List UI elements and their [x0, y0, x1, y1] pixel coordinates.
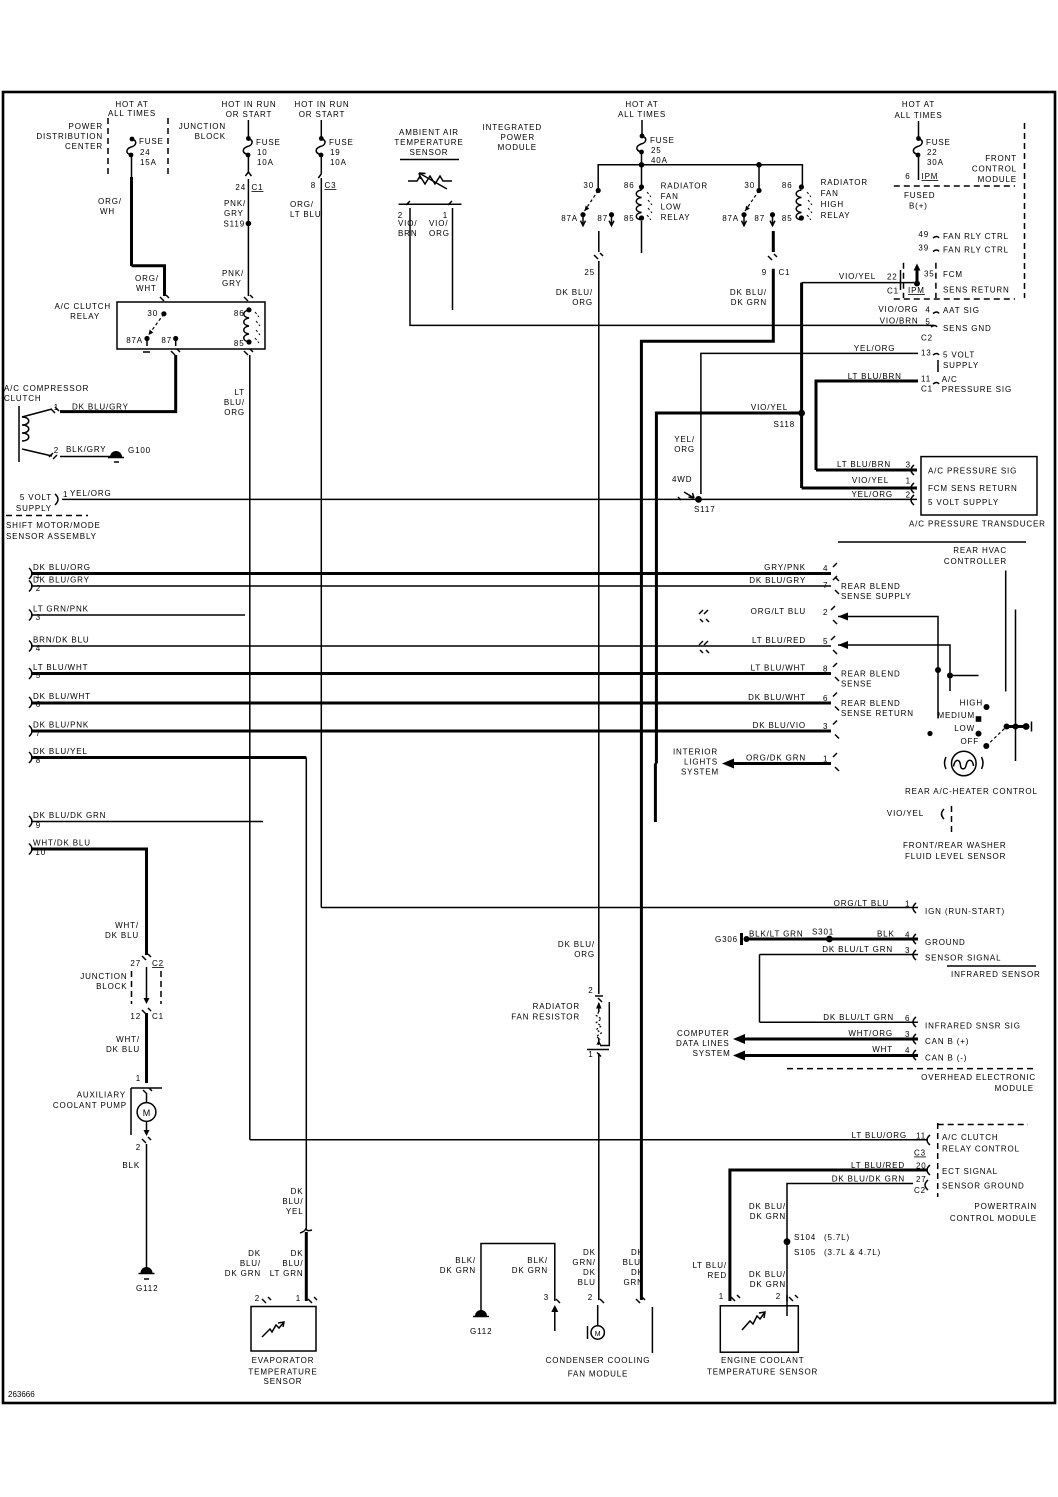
wire VIO/YEL thick stub [654, 764, 657, 823]
svg-text:BLOCK: BLOCK [96, 982, 127, 991]
svg-text:4: 4 [905, 1046, 910, 1055]
svg-text:DK BLU/GRY: DK BLU/GRY [749, 576, 806, 585]
svg-text:DK BLU/: DK BLU/ [749, 1270, 786, 1279]
wire into fuse 25 [641, 120, 643, 135]
wire below fuse 22 [918, 157, 920, 180]
svg-text:WHT/: WHT/ [115, 921, 139, 930]
svg-text:LT BLU/BRN: LT BLU/BRN [837, 460, 891, 469]
svg-text:JUNCTION: JUNCTION [179, 122, 226, 131]
svg-text:DK: DK [631, 1248, 644, 1257]
svg-text:DK BLU: DK BLU [106, 1045, 140, 1054]
svg-text:FUSE: FUSE [256, 138, 281, 147]
overhead electronic module [787, 1068, 1034, 1070]
wire rear hvac internal vertical 1 [1005, 571, 1007, 692]
svg-text:VIO/: VIO/ [398, 219, 417, 228]
fuse F19 10A [319, 136, 324, 141]
svg-text:C3: C3 [325, 181, 337, 190]
svg-text:SENSE: SENSE [841, 680, 872, 689]
svg-text:3: 3 [823, 722, 828, 731]
svg-text:5 VOLT SUPPLY: 5 VOLT SUPPLY [928, 498, 999, 507]
svg-text:DK GRN: DK GRN [750, 1280, 786, 1289]
switch wiper dashed from OFF [986, 727, 1006, 747]
svg-text:86: 86 [234, 309, 245, 318]
svg-text:C1: C1 [779, 268, 791, 277]
svg-text:DK: DK [291, 1187, 304, 1196]
svg-text:9: 9 [762, 268, 767, 277]
fuse F10 10A [246, 136, 251, 141]
svg-text:263666: 263666 [8, 1390, 35, 1399]
wire YEL/ORG from S117 to transducer pin 2 [699, 498, 918, 500]
svg-text:85: 85 [234, 339, 245, 348]
ambient sensor connector line [399, 203, 462, 205]
connector tick above relay 30 [160, 295, 169, 301]
svg-text:WHT: WHT [136, 284, 157, 293]
svg-text:OVERHEAD ELECTRONIC: OVERHEAD ELECTRONIC [921, 1073, 1036, 1082]
svg-text:85: 85 [782, 214, 793, 223]
svg-text:4WD: 4WD [672, 475, 692, 484]
svg-text:C2: C2 [914, 1186, 926, 1195]
svg-text:2: 2 [54, 446, 59, 455]
svg-text:SHIFT MOTOR/MODE: SHIFT MOTOR/MODE [6, 521, 101, 530]
wire LT BLU/RED from PCM 20 to ECT pin 1 [730, 1170, 928, 1301]
svg-text:AUXILIARY: AUXILIARY [77, 1091, 126, 1100]
engine coolant temperature sensor box [720, 1306, 798, 1352]
svg-text:A/C PRESSURE SIG: A/C PRESSURE SIG [928, 467, 1017, 476]
svg-text:1: 1 [588, 1050, 593, 1059]
svg-text:LOW: LOW [661, 203, 682, 212]
svg-text:2: 2 [906, 491, 911, 500]
svg-text:MODULE: MODULE [498, 143, 537, 152]
svg-text:RELAY: RELAY [821, 211, 851, 220]
svg-text:86: 86 [782, 181, 793, 190]
svg-text:DK BLU/DK GRN: DK BLU/DK GRN [832, 1175, 905, 1184]
svg-text:49: 49 [918, 230, 929, 239]
relay wiper 30-87A [149, 314, 164, 335]
svg-text:COOLANT PUMP: COOLANT PUMP [53, 1101, 127, 1110]
svg-text:BRN: BRN [398, 229, 417, 238]
svg-text:2: 2 [776, 1292, 781, 1301]
svg-text:INFRARED SENSOR: INFRARED SENSOR [951, 970, 1041, 979]
svg-text:SUPPLY: SUPPLY [16, 504, 52, 513]
svg-text:HOT AT: HOT AT [625, 100, 658, 109]
svg-text:ORG/: ORG/ [98, 197, 122, 206]
svg-text:LT BLU/ORG: LT BLU/ORG [852, 1131, 907, 1140]
svg-text:INTEGRATED: INTEGRATED [483, 123, 542, 132]
svg-text:ORG/LT BLU: ORG/LT BLU [834, 899, 889, 908]
wire below fuse 10 with connector arrow [247, 157, 249, 172]
svg-text:YEL: YEL [286, 1207, 304, 1216]
svg-text:LT GRN/PNK: LT GRN/PNK [33, 605, 89, 614]
svg-text:FUSED: FUSED [904, 191, 935, 200]
svg-text:FAN MODULE: FAN MODULE [568, 1370, 629, 1379]
svg-text:LT BLU/WHT: LT BLU/WHT [751, 664, 806, 673]
svg-text:DK BLU/ORG: DK BLU/ORG [33, 563, 91, 572]
svg-text:(3.7L & 4.7L): (3.7L & 4.7L) [824, 1248, 881, 1257]
svg-text:BLU/: BLU/ [240, 1259, 261, 1268]
svg-text:BLU/: BLU/ [282, 1259, 303, 1268]
fuse F24 15A [130, 137, 135, 142]
svg-text:FUSE: FUSE [926, 138, 951, 147]
wire into fuse 10 [247, 120, 249, 137]
svg-text:7: 7 [823, 581, 828, 590]
svg-text:5: 5 [823, 637, 828, 646]
svg-text:POWER: POWER [501, 133, 535, 142]
svg-text:6: 6 [823, 694, 828, 703]
wire PNK/GRY [247, 192, 249, 222]
svg-text:A/C COMPRESSOR: A/C COMPRESSOR [4, 384, 89, 393]
svg-text:1: 1 [905, 900, 910, 909]
svg-text:8: 8 [311, 181, 316, 190]
svg-text:DK BLU/: DK BLU/ [730, 288, 767, 297]
wire row6 to pin 6 [31, 702, 831, 705]
svg-text:BLK/: BLK/ [527, 1256, 548, 1265]
svg-text:10A: 10A [257, 158, 274, 167]
wire LT BLU/BRN from FCM 11 down to transducer [816, 381, 918, 470]
svg-text:FAN: FAN [821, 189, 839, 198]
svg-text:POWER: POWER [69, 122, 103, 131]
svg-text:GRN: GRN [623, 1278, 643, 1287]
svg-text:5 VOLT: 5 VOLT [20, 493, 52, 502]
wire 25 DK BLU/ORG below low relay [598, 231, 600, 252]
svg-text:C1: C1 [921, 385, 933, 394]
svg-text:DK: DK [291, 1249, 304, 1258]
wire ORG/WH thick down [130, 177, 133, 266]
wire vertical x950 with junction [947, 673, 953, 679]
svg-text:CLUTCH: CLUTCH [4, 394, 42, 403]
svg-text:DK: DK [583, 1268, 596, 1277]
svg-text:RADIATOR: RADIATOR [661, 182, 708, 191]
svg-text:DATA LINES: DATA LINES [676, 1039, 730, 1048]
wire into fuse 19 [320, 120, 322, 137]
svg-text:22: 22 [927, 148, 938, 157]
wire PNK/GRY to relay 86 [247, 224, 249, 297]
svg-text:FUSE: FUSE [650, 136, 675, 145]
svg-text:S119: S119 [224, 220, 246, 229]
svg-text:24: 24 [235, 183, 246, 192]
svg-text:WHT/DK BLU: WHT/DK BLU [33, 839, 91, 848]
svg-text:B(+): B(+) [909, 202, 928, 211]
motor condenser cooling fan [597, 1305, 599, 1326]
wire 9 C1 below high relay [768, 254, 777, 260]
svg-text:DK BLU/: DK BLU/ [558, 940, 595, 949]
svg-text:CONTROL: CONTROL [972, 165, 1017, 174]
svg-text:25: 25 [651, 146, 662, 155]
svg-text:27: 27 [130, 959, 141, 968]
fuse F25 40A [640, 134, 645, 139]
svg-text:WHT/ORG: WHT/ORG [848, 1029, 893, 1038]
svg-text:CONTROLLER: CONTROLLER [944, 557, 1007, 566]
wire ORG/WHT jog to relay 30 [132, 266, 165, 296]
svg-text:YEL/ORG: YEL/ORG [851, 490, 893, 499]
svg-text:REAR BLEND: REAR BLEND [841, 670, 901, 679]
svg-text:SENSE RETURN: SENSE RETURN [841, 709, 914, 718]
svg-text:WHT: WHT [872, 1045, 893, 1054]
svg-text:FAN RLY CTRL: FAN RLY CTRL [943, 246, 1009, 255]
svg-text:COMPUTER: COMPUTER [677, 1029, 730, 1038]
svg-text:3: 3 [906, 461, 911, 470]
svg-text:12: 12 [130, 1012, 141, 1021]
svg-text:30: 30 [147, 309, 158, 318]
wire fuse 25 to bus [641, 154, 643, 190]
svg-text:RELAY CONTROL: RELAY CONTROL [942, 1145, 1020, 1154]
svg-text:FCM SENS RETURN: FCM SENS RETURN [928, 484, 1018, 493]
relay A/C CLUTCH RELAY box [117, 302, 265, 349]
wire below fuse 19 [320, 157, 322, 174]
svg-text:A/C CLUTCH: A/C CLUTCH [54, 302, 111, 311]
svg-text:S105: S105 [794, 1248, 816, 1257]
svg-text:LT BLU/RED: LT BLU/RED [752, 636, 806, 645]
svg-text:87: 87 [597, 214, 608, 223]
junction block dashed box [131, 971, 133, 1004]
svg-text:DISTRIBUTION: DISTRIBUTION [36, 132, 103, 141]
svg-text:2: 2 [823, 608, 828, 617]
svg-text:RADIATOR: RADIATOR [533, 1002, 580, 1011]
svg-text:DK GRN: DK GRN [731, 298, 767, 307]
svg-text:DK: DK [583, 1248, 596, 1257]
svg-text:MODULE: MODULE [978, 175, 1017, 184]
svg-text:22: 22 [887, 273, 898, 282]
svg-text:LT GRN: LT GRN [270, 1269, 304, 1278]
thermistor symbol [408, 176, 452, 184]
IPM dashed box (pin 35) [903, 263, 905, 298]
svg-text:DK BLU/: DK BLU/ [556, 288, 593, 297]
svg-text:30: 30 [583, 181, 594, 190]
svg-text:FRONT/REAR WASHER: FRONT/REAR WASHER [903, 841, 1007, 850]
svg-text:ENGINE COOLANT: ENGINE COOLANT [721, 1356, 804, 1365]
wire row8 turns down at x306 [31, 756, 306, 759]
svg-text:DK BLU/PNK: DK BLU/PNK [33, 721, 89, 730]
svg-text:YEL/: YEL/ [674, 435, 695, 444]
wire to evaporator pin 1 [305, 1232, 308, 1301]
svg-text:VIO/YEL: VIO/YEL [852, 476, 889, 485]
svg-text:BLOCK: BLOCK [195, 132, 226, 141]
wire YEL/ORG 5V from FCM 13 to S117 [701, 353, 918, 494]
svg-text:BLK/: BLK/ [455, 1256, 476, 1265]
svg-text:3: 3 [544, 1293, 549, 1302]
svg-text:DK GRN: DK GRN [750, 1212, 786, 1221]
svg-text:24: 24 [140, 148, 151, 157]
svg-text:BLU/: BLU/ [224, 398, 245, 407]
svg-text:10: 10 [257, 148, 268, 157]
svg-text:C2: C2 [921, 334, 933, 343]
svg-text:CAN B (+): CAN B (+) [925, 1037, 969, 1046]
svg-text:35: 35 [924, 270, 935, 279]
wire row2 to pin 7 [31, 585, 831, 587]
power distribution center dashed box [107, 118, 109, 176]
wire row9 [31, 821, 263, 823]
svg-text:YEL/ORG: YEL/ORG [70, 489, 112, 498]
svg-text:DK BLU/GRY: DK BLU/GRY [72, 403, 129, 412]
svg-text:DK: DK [248, 1249, 261, 1258]
wire into fuse 22 [918, 121, 920, 137]
svg-text:VIO/BRN: VIO/BRN [880, 317, 919, 326]
svg-text:SENS GND: SENS GND [943, 324, 992, 333]
svg-text:GROUND: GROUND [925, 938, 966, 947]
svg-text:4: 4 [925, 306, 930, 315]
svg-text:FUSE: FUSE [139, 137, 164, 146]
svg-text:ALL TIMES: ALL TIMES [894, 111, 942, 120]
svg-text:VIO/YEL: VIO/YEL [839, 272, 876, 281]
wire DK BLU/ORG long down to radiator fan resistor [598, 261, 600, 994]
A/C compressor clutch coil [18, 406, 20, 462]
svg-text:11: 11 [921, 374, 931, 383]
svg-text:6: 6 [905, 172, 910, 181]
svg-text:OR START: OR START [299, 110, 346, 119]
node junction dot on vertical x938 [935, 667, 941, 673]
svg-text:HOT IN RUN: HOT IN RUN [294, 100, 349, 109]
svg-text:DK BLU/VIO: DK BLU/VIO [753, 721, 806, 730]
svg-text:SENSOR SIGNAL: SENSOR SIGNAL [925, 954, 1001, 963]
svg-text:VIO/ORG: VIO/ORG [878, 305, 918, 314]
svg-text:87: 87 [161, 336, 172, 345]
wire arrow inside junction block [146, 967, 148, 1000]
PCM dashed box [937, 1123, 939, 1197]
wire LT BLU/ORG from relay 85 long down [249, 355, 251, 1140]
svg-text:ORG: ORG [572, 298, 593, 307]
svg-text:VIO/: VIO/ [429, 219, 448, 228]
wire row10 turns down to junction block [31, 849, 147, 955]
svg-text:TEMPERATURE SENSOR: TEMPERATURE SENSOR [707, 1368, 818, 1377]
wire pin2 BLK/GRY to G100 [49, 453, 57, 459]
wire row3 stub [31, 614, 245, 616]
svg-text:JUNCTION: JUNCTION [80, 972, 127, 981]
svg-text:ORG: ORG [429, 229, 450, 238]
svg-text:CONDENSER COOLING: CONDENSER COOLING [546, 1356, 651, 1365]
svg-text:AAT SIG: AAT SIG [943, 306, 980, 315]
wire VIO/YEL from S118 left-down [656, 413, 801, 764]
svg-text:RELAY: RELAY [70, 312, 100, 321]
svg-text:RELAY: RELAY [661, 213, 691, 222]
svg-text:1: 1 [906, 477, 911, 486]
svg-text:DK GRN: DK GRN [225, 1269, 261, 1278]
svg-text:DK BLU/LT GRN: DK BLU/LT GRN [823, 1013, 894, 1022]
svg-text:POWERTRAIN: POWERTRAIN [974, 1202, 1037, 1211]
svg-text:RADIATOR: RADIATOR [821, 178, 868, 187]
svg-text:SENSOR GROUND: SENSOR GROUND [942, 1182, 1025, 1191]
svg-text:WH: WH [100, 207, 115, 216]
A/C pressure transducer box [921, 457, 1037, 515]
svg-text:DK BLU/GRY: DK BLU/GRY [33, 576, 90, 585]
svg-text:87: 87 [754, 214, 765, 223]
svg-text:BLK: BLK [877, 930, 895, 939]
svg-text:FCM: FCM [943, 270, 963, 279]
svg-text:REAR BLEND: REAR BLEND [841, 582, 901, 591]
ground G112 (left) [141, 1267, 153, 1273]
svg-text:BLK: BLK [122, 1161, 140, 1170]
svg-text:25: 25 [584, 268, 595, 277]
svg-text:MEDIUM: MEDIUM [937, 711, 975, 720]
svg-text:2: 2 [255, 1294, 260, 1303]
svg-text:GRN/: GRN/ [572, 1258, 595, 1267]
svg-text:SENSOR: SENSOR [410, 148, 449, 157]
svg-text:RED: RED [708, 1271, 727, 1280]
wire ORG/LT BLU to IGN (RUN-START) pin 1 [321, 907, 918, 909]
svg-text:1: 1 [719, 1292, 724, 1301]
svg-text:OR START: OR START [226, 110, 273, 119]
svg-text:G100: G100 [128, 446, 151, 455]
wire relay87 to A/C compressor clutch (DK BLU/GRY) [60, 355, 176, 412]
svg-text:HOT AT: HOT AT [902, 100, 935, 109]
wire row1 to pin 4 [31, 572, 831, 575]
wire rear hvac internal vertical 2 [1015, 610, 1017, 762]
svg-text:FRONT: FRONT [985, 154, 1017, 163]
svg-text:LT BLU: LT BLU [290, 210, 321, 219]
svg-text:IPM: IPM [922, 172, 939, 181]
svg-text:BLK/GRY: BLK/GRY [66, 445, 107, 454]
svg-text:LT BLU/WHT: LT BLU/WHT [33, 663, 88, 672]
svg-text:LOW: LOW [954, 724, 975, 733]
wire ORG/LT BLU long vertical down to IGN row [320, 191, 322, 908]
svg-text:SENSOR: SENSOR [264, 1377, 303, 1386]
svg-text:A/C CLUTCH: A/C CLUTCH [942, 1133, 999, 1142]
svg-text:1: 1 [136, 1074, 141, 1083]
switch common bar with dots [1005, 725, 1029, 728]
svg-text:REAR BLEND: REAR BLEND [841, 699, 901, 708]
svg-text:CENTER: CENTER [65, 142, 103, 151]
svg-text:HOT IN RUN: HOT IN RUN [221, 100, 276, 109]
svg-text:ORG/LT BLU: ORG/LT BLU [751, 607, 806, 616]
splice S104 (5.7L) [784, 1238, 791, 1245]
lamp rear A/C-heater illumination [952, 751, 977, 776]
node stray dot [927, 731, 932, 736]
svg-text:DK BLU/WHT: DK BLU/WHT [748, 693, 806, 702]
splice marks row3 [699, 610, 709, 622]
svg-text:DK GRN: DK GRN [440, 1266, 476, 1275]
wire VIO/YEL down to S118 [800, 283, 803, 488]
svg-text:BLU: BLU [578, 1278, 596, 1287]
svg-text:SYSTEM: SYSTEM [693, 1049, 731, 1058]
svg-text:SENS RETURN: SENS RETURN [943, 286, 1010, 295]
wire YEL/ORG 5V supply to S117 [62, 498, 699, 500]
svg-text:86: 86 [624, 181, 635, 190]
svg-text:HIGH: HIGH [821, 200, 844, 209]
svg-text:G112: G112 [470, 1327, 492, 1336]
svg-text:DK BLU: DK BLU [105, 931, 139, 940]
svg-text:MODULE: MODULE [995, 1084, 1034, 1093]
svg-text:M: M [143, 1108, 151, 1118]
svg-text:2: 2 [588, 986, 593, 995]
svg-text:ORG/: ORG/ [290, 200, 314, 209]
svg-text:1: 1 [63, 490, 68, 499]
svg-text:DK BLU/LT GRN: DK BLU/LT GRN [822, 945, 893, 954]
svg-text:FLUID LEVEL SENSOR: FLUID LEVEL SENSOR [905, 852, 1006, 861]
wire DK BLU/DK GRN from high relay 87 down-left-down [641, 269, 773, 1300]
svg-text:15A: 15A [140, 158, 157, 167]
svg-text:FUSE: FUSE [329, 138, 354, 147]
svg-text:5 VOLT: 5 VOLT [943, 351, 975, 360]
svg-text:S104: S104 [794, 1233, 816, 1242]
svg-text:ORG: ORG [224, 408, 245, 417]
svg-text:CONTROL MODULE: CONTROL MODULE [950, 1214, 1037, 1223]
svg-text:OFF: OFF [960, 737, 979, 746]
svg-text:C1: C1 [152, 1012, 164, 1021]
svg-text:REAR A/C-HEATER CONTROL: REAR A/C-HEATER CONTROL [905, 787, 1038, 796]
svg-text:SUPPLY: SUPPLY [943, 361, 979, 370]
svg-text:ORG/DK GRN: ORG/DK GRN [746, 754, 806, 763]
wire relay feed bus [598, 165, 802, 190]
svg-text:IPM: IPM [908, 286, 925, 295]
wire row7 to pin 3 [31, 730, 831, 733]
svg-text:VIO/YEL: VIO/YEL [887, 809, 924, 818]
wire sensor signal loop down [759, 955, 761, 1023]
svg-text:4: 4 [905, 931, 910, 940]
svg-text:ORG: ORG [574, 950, 595, 959]
svg-text:BLU/: BLU/ [282, 1197, 303, 1206]
svg-text:LT: LT [235, 388, 245, 397]
svg-text:A/C PRESSURE TRANSDUCER: A/C PRESSURE TRANSDUCER [909, 520, 1046, 529]
wire row4 [31, 645, 831, 647]
svg-text:ALL TIMES: ALL TIMES [618, 110, 666, 119]
